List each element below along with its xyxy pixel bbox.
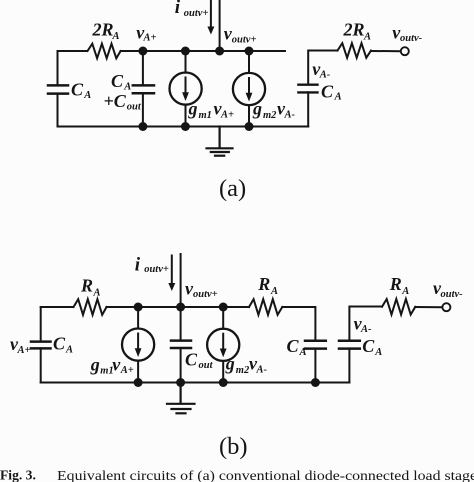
wire: (a) source1 bottom stub xyxy=(185,105,187,127)
wire: (b) left vertical top xyxy=(40,307,42,341)
svg-text:i: i xyxy=(175,0,181,18)
label 2RA (a) left xyxy=(92,20,120,43)
svg-text:A: A xyxy=(83,90,91,101)
wire: (a) source1 top stub xyxy=(185,51,187,73)
svg-text:C: C xyxy=(287,336,300,356)
capacitor Cout (b) xyxy=(171,341,191,348)
capacitor CA+Cout (a) xyxy=(133,85,154,93)
current source gm2 (a) xyxy=(233,73,265,105)
current arrow i_outv+ (b) xyxy=(168,256,175,292)
label v_outv+ (a) xyxy=(224,24,257,46)
svg-text:out: out xyxy=(127,102,142,113)
svg-text:R: R xyxy=(257,274,270,294)
wire: (a) bottom rail xyxy=(58,126,309,128)
svg-text:A-: A- xyxy=(256,364,268,375)
ground (a) xyxy=(207,127,233,156)
wire: (b) to output terminal xyxy=(415,306,442,308)
wire: (b) source2 bottom stub xyxy=(222,361,224,383)
svg-text:g: g xyxy=(188,99,198,119)
ground (b) xyxy=(167,383,195,414)
svg-text:A+: A+ xyxy=(143,32,157,43)
wire: (b) top rail to right vertical1 xyxy=(282,307,315,339)
resistor RA (b) 1 xyxy=(74,299,107,315)
wire: (b) input current wire down to node v_outv+ xyxy=(180,254,182,307)
wire: (a) left vertical bottom xyxy=(57,94,59,127)
svg-text:Fig. 3.: Fig. 3. xyxy=(0,468,36,482)
wire: (b) left vertical bottom xyxy=(40,348,42,382)
wire: (b) bottom rail xyxy=(41,382,350,384)
wire: (b) top rail left xyxy=(41,306,74,308)
node dot ground (b) xyxy=(176,378,185,387)
label CA+Cout (a) xyxy=(104,71,142,113)
label gm2 vA- (a) xyxy=(252,99,296,122)
svg-text:outv-: outv- xyxy=(441,289,464,300)
svg-text:A: A xyxy=(401,286,409,297)
node dot voutv+ (a) xyxy=(215,47,224,56)
wire: (b) top rail mid xyxy=(107,306,250,308)
svg-text:A+: A+ xyxy=(17,345,31,356)
wire: (a) top rail xyxy=(58,50,88,52)
label voutv- (a) xyxy=(392,23,422,45)
capacitor CA (a) left xyxy=(48,85,68,93)
wire: (a) mid cap top stub xyxy=(142,51,144,85)
svg-text:outv+: outv+ xyxy=(184,8,209,19)
terminal voutv- (b) xyxy=(442,303,450,311)
label v_outv+ (b) xyxy=(185,278,218,300)
label Cout (b) xyxy=(185,350,214,372)
wire: (b) source2 top stub xyxy=(222,307,224,329)
caption Fig. 3 xyxy=(0,468,474,482)
wire: (a) left vertical top xyxy=(57,51,59,85)
label gm1 vA+ (b) xyxy=(90,354,134,376)
svg-text:i: i xyxy=(135,255,141,276)
label 2RA (a) right xyxy=(343,20,372,43)
svg-text:m2: m2 xyxy=(263,110,277,121)
svg-text:A: A xyxy=(270,286,278,297)
wire: (a) to output terminal xyxy=(372,50,401,52)
node dot source1 bottom (a) xyxy=(181,122,190,131)
node dot source1 top (a) xyxy=(181,47,190,56)
svg-text:outv+: outv+ xyxy=(232,34,257,45)
svg-text:A: A xyxy=(299,347,307,358)
label i_outv+ (a) xyxy=(175,0,209,19)
wire: (b) source1 top stub xyxy=(137,307,139,329)
label CA (a) right xyxy=(321,81,342,102)
resistor 2RA (a) right xyxy=(338,43,372,58)
svg-text:R: R xyxy=(389,274,402,294)
node dot source2 bottom (b) xyxy=(219,378,228,387)
label voutv- (b) xyxy=(433,278,463,300)
svg-text:outv+: outv+ xyxy=(193,289,218,300)
capacitor CA (b) left xyxy=(31,342,51,349)
svg-text:g: g xyxy=(225,354,235,374)
wire: (b) right vertical1 bottom xyxy=(314,349,316,383)
label vA- (b) xyxy=(354,313,372,335)
svg-text:2R: 2R xyxy=(343,20,365,40)
node dot source2 top (b) xyxy=(219,303,228,312)
label CA (b) left xyxy=(53,334,73,356)
svg-text:+C: +C xyxy=(104,91,127,111)
wire: (b) right section corner vertical xyxy=(349,307,382,339)
svg-text:(a): (a) xyxy=(219,175,246,202)
wire: (b) Cout top stub xyxy=(180,307,182,340)
svg-text:out: out xyxy=(199,360,214,371)
svg-text:C: C xyxy=(362,336,375,356)
svg-text:2R: 2R xyxy=(92,20,114,40)
svg-text:m1: m1 xyxy=(199,110,212,121)
svg-text:C: C xyxy=(321,81,334,101)
svg-text:C: C xyxy=(53,334,66,354)
svg-text:A: A xyxy=(363,32,371,43)
resistor RA (b) 3 xyxy=(382,299,415,315)
label CA (a) left xyxy=(71,80,91,101)
svg-text:Equivalent circuits of (a) con: Equivalent circuits of (a) conventional … xyxy=(57,468,474,482)
resistor RA (b) 2 xyxy=(249,299,282,315)
svg-text:A-: A- xyxy=(319,70,331,81)
svg-text:A-: A- xyxy=(360,324,372,335)
svg-text:A: A xyxy=(374,347,382,358)
svg-text:outv-: outv- xyxy=(400,33,423,44)
node dot voutv+ (b) xyxy=(176,303,185,312)
svg-text:(b): (b) xyxy=(219,433,248,460)
label RA (b) 2 xyxy=(257,274,278,297)
label CA (b) third xyxy=(287,336,307,358)
svg-text:C: C xyxy=(185,350,198,370)
svg-text:A: A xyxy=(93,287,101,298)
svg-text:A: A xyxy=(65,345,73,356)
node dot source1 top (b) xyxy=(134,303,143,312)
svg-text:g: g xyxy=(252,99,262,119)
label vA- (a) right xyxy=(312,59,331,81)
wire: (a) mid cap bottom stub xyxy=(142,93,144,126)
label vA+ (b) left xyxy=(10,334,31,356)
label i_outv+ (b) xyxy=(135,255,169,276)
resistor 2RA (a) left xyxy=(88,44,121,59)
label gm1 vA+ (a) xyxy=(188,99,235,122)
capacitor CA (b) third xyxy=(305,341,326,349)
node dot right vertical1 bottom (b) xyxy=(311,378,320,387)
label RA (b) 1 xyxy=(80,276,101,299)
node dot vA+ bottom (a) xyxy=(138,122,147,131)
svg-text:C: C xyxy=(111,71,124,91)
wire: (b) right vertical2 bottom xyxy=(348,349,350,383)
node dot source2 top (a) xyxy=(245,47,254,56)
wire: (a) top rail from resistor to rail end xyxy=(121,50,285,52)
wire: (b) Cout bottom stub xyxy=(180,348,182,383)
svg-text:A-: A- xyxy=(284,110,296,121)
svg-text:R: R xyxy=(80,276,93,296)
wire: (a) right vertical bottom xyxy=(307,92,309,126)
label gm2 vA- (b) xyxy=(225,354,268,376)
current source gm2 (b) xyxy=(207,329,239,361)
terminal voutv- (a) xyxy=(401,47,409,55)
current source gm1 (b) xyxy=(122,329,154,361)
node dot source2 bottom (a) xyxy=(245,122,254,131)
wire: (a) source2 bottom stub xyxy=(248,105,250,127)
svg-text:outv+: outv+ xyxy=(144,264,169,275)
svg-text:A+: A+ xyxy=(120,365,134,376)
svg-text:C: C xyxy=(71,80,84,100)
capacitor CA (a) right xyxy=(298,85,317,93)
svg-text:A: A xyxy=(112,31,120,42)
label v_A+ node (a) xyxy=(136,22,156,43)
wire: (a) input current wire from top edge down to node v_outv+ xyxy=(219,0,221,51)
label RA (b) 3 xyxy=(389,274,410,297)
wire: (a) right section corner and vertical xyxy=(308,51,337,85)
node dot source1 bottom (b) xyxy=(134,378,143,387)
svg-text:A+: A+ xyxy=(220,110,234,121)
current source gm1 (a) xyxy=(170,73,202,105)
wire: (a) source2 top stub xyxy=(248,51,250,73)
node dot vA+ top (a) xyxy=(138,47,147,56)
svg-text:m2: m2 xyxy=(236,365,250,376)
label CA (b) fourth xyxy=(362,336,382,358)
wire: (b) source1 bottom stub xyxy=(137,361,139,383)
capacitor CA (b) fourth xyxy=(339,341,360,349)
svg-text:A: A xyxy=(334,92,342,103)
current arrow i_outv+ (a) xyxy=(207,0,214,35)
svg-text:g: g xyxy=(90,354,100,374)
